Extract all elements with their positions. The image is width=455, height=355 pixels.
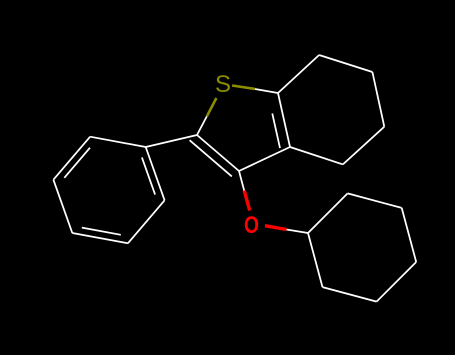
svg-text:O: O: [244, 212, 259, 239]
svg-text:S: S: [215, 71, 231, 98]
